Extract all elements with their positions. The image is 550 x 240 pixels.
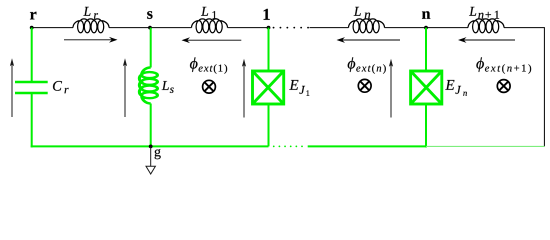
arrow left under L_1 [182, 37, 242, 43]
bottom wire right thin segment [426, 145, 544, 147]
dotted wire right of node 1 [274, 27, 309, 29]
wire node 1 down to junction E_J1 [268, 28, 270, 71]
node label n [422, 11, 430, 18]
flux symbol phi_ext(n+1) [497, 80, 510, 93]
node label r [30, 12, 36, 20]
label L_r [83, 7, 98, 19]
inductor L_1 [192, 19, 228, 33]
node s [148, 26, 152, 30]
arrow right under L_r [64, 37, 118, 43]
flux symbol phi_ext(n) [358, 79, 371, 92]
node n [424, 26, 428, 30]
branch flux arrow left of L_s [123, 58, 127, 117]
label phi_ext(n+1) [476, 57, 531, 73]
ground node dot [149, 145, 153, 149]
wire L_1 to node 1 [228, 27, 269, 29]
wire capacitor down to bottom wire [31, 94, 33, 148]
arrow left under L_n+1 [458, 37, 515, 43]
josephson junction E_J1 [253, 71, 284, 104]
label L_s [162, 81, 174, 93]
node label s [147, 11, 152, 19]
branch flux arrow left of C_r [10, 58, 14, 117]
inductor L_n [349, 19, 385, 33]
label L_n+1 [469, 7, 499, 19]
label phi_ext(n) [348, 57, 386, 73]
inductor L_s vertical [139, 68, 157, 104]
label E_J1 [289, 80, 309, 96]
node label 1 [264, 9, 270, 20]
label g [155, 149, 161, 159]
josephson junction E_Jn [411, 71, 442, 104]
wire node r to L_r [32, 27, 73, 29]
node 1 [267, 26, 271, 30]
capacitor C_r [15, 82, 48, 93]
branch flux arrow left of E_Jn [389, 59, 393, 118]
wire L_s down to bottom wire [150, 104, 152, 147]
node r [30, 26, 34, 30]
branch flux arrow left of E_J1 [242, 59, 246, 118]
wire node r down to capacitor [31, 28, 33, 82]
label L_1 [201, 7, 217, 19]
label E_Jn [445, 80, 467, 96]
wire L_n to L_n+1 via node n [385, 27, 469, 29]
label phi_ext(1) [190, 57, 227, 73]
inductor L_n+1 [468, 19, 504, 33]
bottom wire middle solid segment [308, 145, 426, 147]
wire junction E_Jn down to bottom wire [425, 104, 427, 147]
label L_n [354, 7, 371, 19]
inductor L_r [73, 19, 109, 33]
label C_r [53, 81, 69, 93]
wire L_r to node 1 via node s [109, 27, 192, 29]
wire junction E_J1 down to bottom wire [268, 104, 270, 146]
ground triangle [146, 166, 155, 174]
ground lead [150, 146, 152, 166]
arrow left under L_n [337, 37, 401, 43]
bottom wire dotted segment [274, 145, 307, 147]
wire node s down to L_s [150, 28, 152, 68]
wire L_n+1 to top right corner and right border down [504, 28, 544, 147]
wire to L_n [310, 27, 349, 29]
bottom wire left solid segment [31, 145, 269, 147]
wire node n down to junction E_Jn [425, 28, 427, 71]
flux symbol phi_ext(1) [203, 80, 216, 93]
